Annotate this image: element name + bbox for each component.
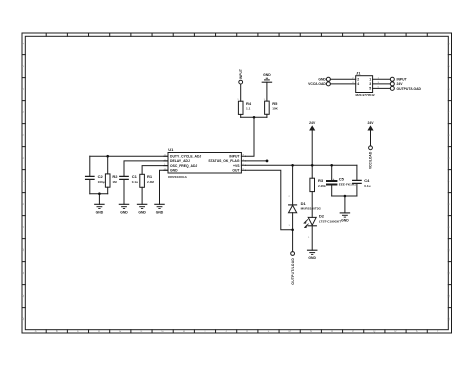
- svg-text:24V: 24V: [397, 82, 404, 86]
- svg-text:GND: GND: [170, 169, 178, 173]
- svg-text:13: 13: [21, 317, 25, 320]
- svg-text:OUT: OUT: [232, 169, 240, 173]
- svg-text:A: A: [35, 329, 37, 333]
- svg-text:C4: C4: [364, 178, 370, 183]
- svg-text:GND: GND: [263, 73, 271, 77]
- svg-text:Q: Q: [373, 329, 375, 333]
- node R2 top junction: [106, 155, 109, 158]
- svg-text:GND: GND: [120, 210, 128, 214]
- svg-text:H: H: [183, 329, 185, 333]
- svg-text:R1: R1: [147, 174, 153, 179]
- node C5 on +VS rail: [330, 164, 333, 167]
- wire OUT down and right: [246, 170, 293, 230]
- capacitor C2: [89, 156, 91, 176]
- svg-text:DUTY_CYCLE_ADJ: DUTY_CYCLE_ADJ: [170, 155, 201, 159]
- ground under D2: [308, 249, 317, 251]
- svg-text:1.1: 1.1: [246, 107, 251, 111]
- svg-text:GND: GND: [318, 78, 326, 82]
- U1 right pin stubs: [241, 156, 245, 170]
- svg-text:C5: C5: [339, 177, 345, 182]
- svg-text:R: R: [395, 329, 397, 333]
- resistor R3: [311, 165, 313, 178]
- ground under R1: [137, 203, 146, 205]
- svg-text:10K: 10K: [272, 107, 278, 111]
- svg-text:M20-9770542: M20-9770542: [356, 93, 375, 97]
- port GND circle (J1 pin2): [326, 77, 330, 81]
- wire stem to ground: [98, 194, 100, 205]
- resistor R5: [266, 82, 268, 101]
- svg-text:12: 12: [21, 294, 25, 297]
- op-amp U1 box: [168, 153, 241, 174]
- connector J1 box: [356, 76, 373, 93]
- node R4/R5 junction: [253, 116, 256, 119]
- LED D2 emission arrows: [305, 220, 308, 223]
- frame outer border: [22, 33, 452, 333]
- svg-text:0.1u: 0.1u: [364, 184, 370, 188]
- svg-text:100µ: 100µ: [98, 180, 105, 184]
- port INPUT circle (J1 pin1): [390, 77, 394, 81]
- ground under C1: [119, 203, 128, 205]
- power 24V arrow (right): [368, 126, 372, 130]
- svg-text:GND: GND: [308, 256, 316, 260]
- ground under C5/C4: [340, 212, 349, 214]
- svg-text:O: O: [331, 329, 333, 333]
- svg-text:J1: J1: [356, 71, 361, 76]
- capacitor C1: [120, 176, 128, 179]
- svg-text:13: 13: [447, 317, 451, 320]
- svg-text:VCC/LOAD: VCC/LOAD: [369, 151, 373, 169]
- svg-text:VCC/LOAD: VCC/LOAD: [308, 82, 326, 86]
- svg-text:1M: 1M: [112, 180, 117, 184]
- svg-text:K: K: [246, 329, 248, 333]
- svg-text:OUTPUT/LOAD: OUTPUT/LOAD: [291, 258, 295, 285]
- svg-text:10: 10: [447, 248, 451, 251]
- port INPUT circle: [239, 80, 243, 84]
- junction dots: [98, 116, 346, 231]
- ground under C2/R2: [95, 203, 104, 205]
- svg-text:R3: R3: [318, 178, 324, 183]
- LED D2: [308, 217, 316, 225]
- svg-text:+: +: [333, 177, 335, 181]
- wire STATUS_OK_FLAG stub: [246, 160, 268, 162]
- J1 right wires to ports: [373, 79, 391, 88]
- svg-text:C1: C1: [132, 174, 138, 179]
- svg-text:D2: D2: [319, 213, 325, 218]
- wire C5/C4 bottom: [332, 195, 357, 197]
- svg-text:2: 2: [357, 78, 359, 82]
- J1 left wires to ports: [330, 79, 355, 84]
- svg-text:3: 3: [369, 82, 371, 86]
- svg-text:R2: R2: [112, 174, 118, 179]
- wire R4 R5 bottom rail: [241, 116, 267, 118]
- svg-text:N: N: [310, 329, 312, 333]
- svg-text:10: 10: [21, 248, 25, 251]
- svg-text:24V: 24V: [367, 121, 374, 125]
- node 24V/R3 on +VS rail: [311, 164, 314, 167]
- wire U1 pin DELAY_ADJ to C1: [124, 161, 168, 176]
- svg-text:GND: GND: [138, 210, 146, 214]
- ground under U1 GND pin: [155, 203, 164, 205]
- svg-text:0.1u: 0.1u: [132, 180, 138, 184]
- frame inner border: [25, 36, 448, 329]
- svg-text:1: 1: [369, 77, 371, 81]
- capacitor C5 branch: [331, 165, 333, 180]
- resistor R1: [140, 174, 145, 187]
- port OUTPUT/LOAD circle: [291, 252, 295, 256]
- svg-text:LTST-C190GKT: LTST-C190GKT: [319, 220, 341, 224]
- port VCC/LOAD circle: [369, 146, 373, 150]
- svg-text:OSC_FREQ_ADJ: OSC_FREQ_ADJ: [170, 164, 197, 168]
- svg-text:GND: GND: [341, 219, 349, 223]
- svg-text:D: D: [98, 329, 100, 333]
- svg-text:INPUT: INPUT: [397, 78, 408, 82]
- svg-text:12: 12: [447, 294, 451, 297]
- wire C2/R2 bottom join: [90, 193, 108, 195]
- port VCC/LOAD circle (J1 pin4): [326, 82, 330, 86]
- diode D1: [292, 165, 294, 205]
- svg-text:GND: GND: [96, 210, 104, 214]
- svg-text:2.4M: 2.4M: [147, 180, 154, 184]
- wire OUT node down to port: [292, 230, 294, 252]
- svg-text:U1: U1: [168, 147, 174, 152]
- wire U1 INPUT pin up to R4/R5 junction: [246, 118, 255, 157]
- svg-text:DRV103UGA: DRV103UGA: [168, 175, 187, 179]
- svg-text:DELAY_ADJ: DELAY_ADJ: [170, 159, 190, 163]
- node OUT/D1 bottom junction: [291, 229, 294, 232]
- resistor R2: [107, 156, 109, 174]
- svg-text:24V: 24V: [309, 121, 316, 125]
- frame ticks top and bottom: [46, 33, 427, 333]
- svg-text:2.20k: 2.20k: [318, 184, 326, 188]
- capacitor C5 (polarized): [327, 181, 336, 185]
- port OUTPUT/LOAD circle (J1 pin5): [390, 86, 394, 90]
- ground (up) above R5: [262, 81, 271, 83]
- svg-text:INPUT: INPUT: [239, 69, 243, 79]
- svg-text:+VS: +VS: [233, 164, 240, 168]
- U1 left pin stubs: [164, 156, 168, 170]
- svg-text:MURS160T3G: MURS160T3G: [301, 206, 322, 210]
- svg-text:D1: D1: [301, 201, 307, 206]
- svg-text:5: 5: [369, 87, 371, 91]
- capacitor C4: [356, 165, 358, 180]
- node C2/R2 bottom junction: [98, 192, 101, 195]
- wire +VS rail: [246, 164, 357, 166]
- svg-text:R4: R4: [246, 101, 252, 106]
- node STATUS_OK_FLAG stub dot: [266, 160, 269, 163]
- wire U1 pin OSC_FREQ_ADJ to R1: [142, 166, 168, 175]
- port 24V circle (J1 pin3): [390, 82, 394, 86]
- wire U1 pin GND down to ground: [160, 170, 169, 204]
- svg-text:11: 11: [447, 271, 451, 274]
- svg-text:EEE-FK1H1: EEE-FK1H1: [339, 183, 356, 187]
- svg-text:4: 4: [357, 82, 359, 86]
- svg-text:E: E: [119, 329, 121, 333]
- svg-text:STATUS_OK_FLAG: STATUS_OK_FLAG: [208, 159, 240, 163]
- node C5/C4 gnd junction: [344, 195, 347, 198]
- svg-text:C: C: [77, 329, 79, 333]
- svg-text:R5: R5: [272, 101, 278, 106]
- node D1 top on +VS rail: [291, 164, 294, 167]
- resistor R4: [240, 114, 242, 117]
- svg-text:S: S: [416, 329, 418, 333]
- svg-text:OUTPUT/LOAD: OUTPUT/LOAD: [397, 87, 422, 91]
- wire U1 pin DUTY_CYCLE_ADJ to C2/R2 top: [90, 155, 168, 157]
- svg-text:G: G: [162, 329, 164, 333]
- svg-text:C2: C2: [98, 174, 104, 179]
- svg-text:P: P: [352, 329, 354, 333]
- frame ticks left and right: [22, 55, 452, 308]
- svg-text:11: 11: [21, 271, 25, 274]
- power 24V arrow (left): [310, 126, 314, 130]
- svg-text:INPUT: INPUT: [229, 155, 240, 159]
- svg-text:B: B: [56, 329, 58, 333]
- wire stem to ground: [344, 196, 346, 213]
- svg-text:GND: GND: [156, 210, 164, 214]
